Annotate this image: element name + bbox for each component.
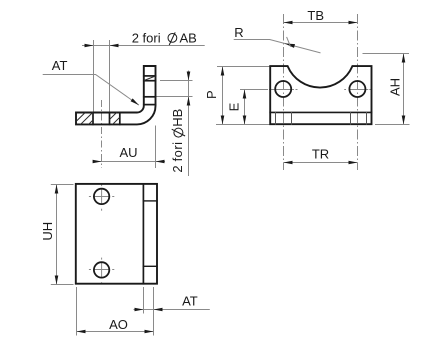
dimension AH extension line bottom bbox=[375, 124, 410, 126]
label UH (rotated) bbox=[40, 222, 55, 241]
label AH (rotated) bbox=[387, 78, 402, 96]
dimension P extension line bottom bbox=[216, 124, 270, 126]
dimension AH line bbox=[403, 54, 405, 125]
dimension 2 fori HB extension line top bbox=[160, 80, 193, 82]
dimension AO extension line right bbox=[153, 287, 155, 336]
dimension AT arrow right bbox=[154, 308, 163, 312]
dimension TB arrow right bbox=[349, 21, 358, 25]
label 2 fori diameter AB bbox=[132, 30, 197, 45]
dimension AH extension line top bbox=[363, 53, 410, 55]
dimension AT extension line left bbox=[143, 287, 145, 314]
svg-text:TB: TB bbox=[307, 8, 324, 23]
leader AT arrowhead bbox=[131, 98, 139, 105]
top view hole top bbox=[94, 189, 109, 204]
dimension 2 fori AB arrow right bbox=[110, 44, 119, 48]
front view block outline with arc cutout bbox=[270, 66, 371, 124]
front view hole left bbox=[275, 81, 291, 97]
strip tick 2 bbox=[291, 112, 293, 124]
hatching base left bbox=[77, 113, 93, 125]
flange segment line 4 bbox=[144, 104, 156, 106]
dimension E extension line top bbox=[240, 89, 268, 91]
label E (rotated) bbox=[227, 102, 242, 111]
centerline hole right vertical bbox=[357, 14, 359, 170]
dimension AU arrow left bbox=[93, 160, 102, 164]
svg-text:R: R bbox=[234, 25, 243, 40]
svg-text:AB: AB bbox=[180, 30, 197, 45]
base plate segment line 2 bbox=[109, 113, 111, 125]
dimension 2 fori AB extension line left bbox=[93, 40, 95, 112]
dimension AH arrow bottom bbox=[402, 116, 406, 125]
svg-text:AH: AH bbox=[387, 78, 402, 96]
strip tick 1 bbox=[275, 112, 277, 124]
strip tick 3 bbox=[350, 112, 352, 124]
dimension 2 fori AB extension line right bbox=[109, 40, 111, 112]
front view hole right bbox=[349, 81, 365, 97]
dimension UH extension line bottom bbox=[51, 284, 74, 286]
label 2 fori diameter HB (rotated) bbox=[170, 109, 185, 173]
svg-text:AT: AT bbox=[52, 58, 68, 73]
top view flange hole mark 1 bbox=[143, 200, 157, 202]
base plate segment line 1 bbox=[92, 113, 94, 125]
dimension AO arrow left bbox=[77, 330, 86, 334]
dimension AT arrow left bbox=[135, 308, 144, 312]
dimension 2 fori HB arrow top bbox=[187, 72, 191, 81]
svg-text:fori: fori bbox=[170, 142, 185, 162]
dimension P arrow top bbox=[221, 67, 225, 76]
dimension AO extension line left bbox=[76, 287, 78, 336]
dimension AU line bbox=[95, 161, 165, 163]
dimension 2 fori HB extension line bottom bbox=[156, 96, 193, 98]
flange segment line 2 bbox=[144, 80, 156, 82]
centerline of base hole AB bbox=[101, 100, 103, 168]
dimension TB line bbox=[284, 22, 358, 24]
svg-text:HB: HB bbox=[170, 109, 185, 127]
label P (rotated) bbox=[204, 90, 219, 99]
base plate segment line 3 bbox=[119, 113, 121, 125]
dimension TB arrow left bbox=[284, 21, 293, 25]
svg-text:2: 2 bbox=[170, 165, 185, 172]
hatching flange bbox=[144, 76, 155, 80]
dimension 2 fori HB line bbox=[188, 71, 190, 177]
strip tick 4 bbox=[366, 112, 368, 124]
flange segment line 1 bbox=[144, 75, 156, 77]
dimension P arrow bottom bbox=[221, 116, 225, 125]
top view flange edge line bbox=[142, 184, 144, 284]
front view base strip line bbox=[270, 111, 371, 113]
centerline top hole cross bbox=[89, 184, 114, 211]
dimension AO line bbox=[77, 331, 154, 333]
svg-text:TR: TR bbox=[312, 147, 329, 162]
dimension E line bbox=[244, 90, 246, 125]
svg-text:2 fori: 2 fori bbox=[132, 30, 161, 45]
leader AT bbox=[43, 75, 139, 106]
dimension UH arrow top bbox=[55, 185, 59, 194]
dimension P extension line top bbox=[217, 66, 270, 68]
centerline hole left vertical bbox=[283, 14, 285, 170]
leader R bbox=[234, 40, 321, 53]
svg-text:AU: AU bbox=[119, 145, 137, 160]
dimension AT line bbox=[134, 309, 210, 311]
leader R arc tick bbox=[287, 37, 291, 47]
dimension 2 fori HB arrow bottom bbox=[187, 97, 191, 106]
leader R arrowhead bbox=[284, 43, 295, 48]
side view L-profile outline bbox=[76, 66, 156, 124]
dimension UH line bbox=[56, 185, 58, 285]
dimension E arrow top bbox=[243, 90, 247, 99]
flange segment line 3 bbox=[144, 96, 156, 98]
dimension P line bbox=[222, 67, 224, 125]
centerline bottom hole cross bbox=[89, 258, 114, 285]
dimension AO arrow right bbox=[145, 330, 154, 334]
dimension TR arrow right bbox=[349, 161, 358, 165]
dimension AU extension line right bbox=[155, 126, 157, 169]
svg-text:AO: AO bbox=[109, 317, 128, 332]
dimension TR line bbox=[284, 162, 358, 164]
centerline hole right horizontal bbox=[344, 89, 371, 91]
svg-text:UH: UH bbox=[40, 222, 55, 241]
dimension TR arrow left bbox=[284, 161, 293, 165]
top view plate outline bbox=[76, 184, 157, 284]
svg-text:E: E bbox=[227, 102, 242, 111]
dimension E arrow bottom bbox=[243, 116, 247, 125]
dimension UH extension line top bbox=[51, 184, 74, 186]
svg-text:AT: AT bbox=[182, 294, 198, 309]
top view hole bottom bbox=[94, 262, 109, 277]
hatching base right bbox=[110, 113, 120, 125]
dimension AH arrow top bbox=[402, 54, 406, 63]
svg-text:P: P bbox=[204, 90, 219, 99]
centerline hole left horizontal bbox=[269, 89, 298, 91]
dimension 2 fori AB line bbox=[82, 45, 205, 47]
dimension UH arrow bottom bbox=[55, 276, 59, 285]
dimension 2 fori AB arrow left bbox=[85, 44, 94, 48]
dimension AU arrow right bbox=[156, 160, 165, 164]
top view flange hole mark 2 bbox=[143, 265, 157, 267]
